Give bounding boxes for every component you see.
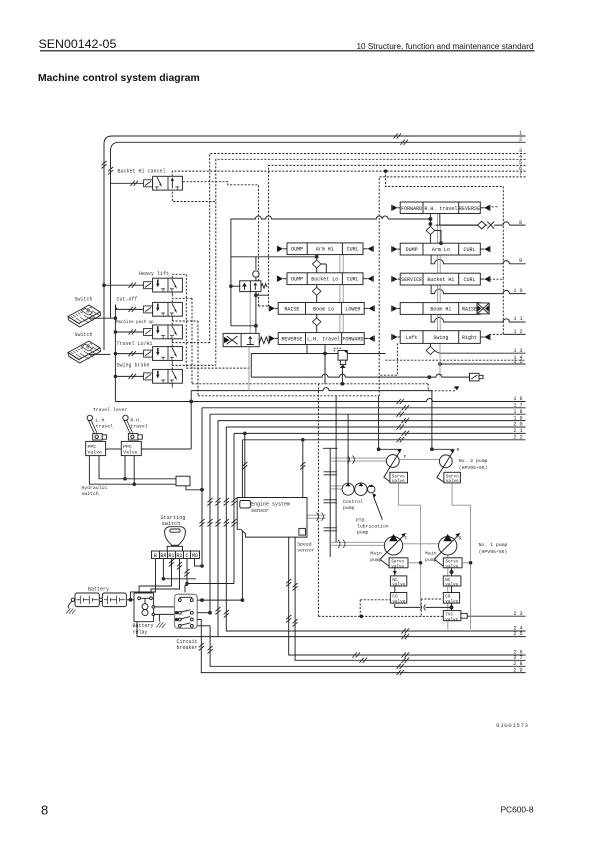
svg-text:1 2: 1 2 xyxy=(513,329,522,335)
svg-text:4: 4 xyxy=(519,154,522,160)
svg-text:SEN00142-05: SEN00142-05 xyxy=(39,37,117,51)
svg-text:2 9: 2 9 xyxy=(513,667,522,673)
svg-text:1 5: 1 5 xyxy=(513,359,522,365)
svg-text:valve: valve xyxy=(446,479,459,484)
svg-text:Arm Lo: Arm Lo xyxy=(432,247,450,253)
svg-text:breaker: breaker xyxy=(177,645,198,651)
svg-text:LOWER: LOWER xyxy=(345,306,360,312)
svg-text:SERVICE: SERVICE xyxy=(401,277,422,283)
svg-text:(HPV95+95): (HPV95+95) xyxy=(459,465,488,471)
svg-text:Battery: Battery xyxy=(88,587,109,593)
svg-text:PC600-8: PC600-8 xyxy=(500,805,533,815)
svg-text:R: R xyxy=(457,447,460,453)
svg-text:Travel lever: Travel lever xyxy=(93,407,128,413)
svg-text:1: 1 xyxy=(519,131,522,137)
svg-text:Speed: Speed xyxy=(297,542,312,548)
svg-text:valve: valve xyxy=(445,599,458,604)
svg-text:Machine push up: Machine push up xyxy=(116,320,154,325)
svg-text:valve: valve xyxy=(445,583,458,588)
svg-text:valve: valve xyxy=(391,565,404,570)
svg-text:7: 7 xyxy=(519,172,522,178)
svg-text:PTO: PTO xyxy=(356,517,365,523)
svg-text:relay: relay xyxy=(133,629,148,635)
svg-text:BR: BR xyxy=(160,553,166,559)
svg-text:Right: Right xyxy=(462,335,477,341)
svg-text:CURL: CURL xyxy=(463,277,475,283)
svg-text:Valve: Valve xyxy=(88,450,103,456)
svg-text:sensor: sensor xyxy=(297,549,314,554)
svg-text:R2: R2 xyxy=(176,553,182,559)
svg-text:Battery: Battery xyxy=(133,623,154,629)
svg-text:9JG01573: 9JG01573 xyxy=(496,722,529,729)
svg-text:Left: Left xyxy=(406,335,418,341)
svg-text:9: 9 xyxy=(519,258,522,264)
svg-text:1 7: 1 7 xyxy=(513,403,522,409)
svg-text:switch: switch xyxy=(81,491,98,497)
svg-text:F: F xyxy=(404,454,407,460)
svg-text:travel: travel xyxy=(130,423,147,429)
svg-text:1 1: 1 1 xyxy=(513,316,522,322)
svg-text:switch: switch xyxy=(162,521,181,527)
svg-text:8: 8 xyxy=(41,803,48,818)
svg-text:Main: Main xyxy=(425,551,437,557)
svg-text:Travel Lo/Hi: Travel Lo/Hi xyxy=(117,341,153,347)
svg-text:1 3: 1 3 xyxy=(513,348,522,354)
svg-text:Heavy lift: Heavy lift xyxy=(139,271,169,277)
svg-text:1 6: 1 6 xyxy=(513,396,522,402)
svg-text:Switch: Switch xyxy=(75,332,93,338)
svg-text:FORWARD: FORWARD xyxy=(342,336,363,342)
svg-text:FORWARD: FORWARD xyxy=(401,206,422,212)
svg-text:PPC: PPC xyxy=(88,444,97,450)
svg-text:CURL: CURL xyxy=(347,277,359,283)
svg-text:L.H.: L.H. xyxy=(96,417,108,423)
svg-text:MO: MO xyxy=(192,553,198,559)
svg-text:pump: pump xyxy=(425,558,437,563)
svg-text:DUMP: DUMP xyxy=(291,277,303,283)
svg-text:2 3: 2 3 xyxy=(513,611,522,617)
svg-text:Bucket Lo: Bucket Lo xyxy=(311,277,338,283)
svg-text:No. 2 pump: No. 2 pump xyxy=(459,458,488,464)
svg-text:Bucket Hi cancel: Bucket Hi cancel xyxy=(118,169,166,175)
svg-text:2 0: 2 0 xyxy=(513,422,522,428)
svg-text:CURL: CURL xyxy=(347,247,359,253)
svg-text:B: B xyxy=(154,553,157,559)
svg-text:REVERSE: REVERSE xyxy=(459,206,480,212)
svg-text:RAISE: RAISE xyxy=(284,306,299,312)
svg-text:pump: pump xyxy=(357,531,369,536)
svg-text:CURL: CURL xyxy=(463,247,475,253)
svg-text:R.H.: R.H. xyxy=(130,417,142,423)
svg-text:REVERSE: REVERSE xyxy=(281,336,302,342)
svg-text:Hydraulic: Hydraulic xyxy=(81,485,107,491)
svg-text:2 2: 2 2 xyxy=(513,435,522,441)
svg-text:Boom Hi: Boom Hi xyxy=(430,306,451,312)
svg-text:Arm Hi: Arm Hi xyxy=(316,247,334,253)
svg-text:valve: valve xyxy=(392,583,405,588)
svg-text:Swing: Swing xyxy=(433,335,448,341)
svg-text:RAISE: RAISE xyxy=(462,306,477,312)
svg-text:Bucket Hi: Bucket Hi xyxy=(427,277,454,283)
svg-text:1 8: 1 8 xyxy=(513,409,522,415)
svg-text:L.H. travel: L.H. travel xyxy=(307,336,340,342)
svg-text:F: F xyxy=(405,536,408,542)
svg-text:8: 8 xyxy=(519,220,522,226)
svg-text:Engine system: Engine system xyxy=(251,502,290,508)
svg-text:DUMP: DUMP xyxy=(406,247,418,253)
svg-text:valve: valve xyxy=(392,599,405,604)
svg-text:Control: Control xyxy=(343,499,363,505)
svg-text:1 9: 1 9 xyxy=(513,415,522,421)
svg-text:Boom Lo: Boom Lo xyxy=(313,306,334,312)
svg-text:DUMP: DUMP xyxy=(291,247,303,253)
svg-text:Machine control system diagram: Machine control system diagram xyxy=(38,73,200,84)
svg-text:sensor: sensor xyxy=(251,508,269,514)
svg-text:travel: travel xyxy=(96,423,113,429)
svg-text:lubrication: lubrication xyxy=(357,524,389,530)
svg-text:Cut-off: Cut-off xyxy=(117,297,138,303)
svg-text:(HPV95+95): (HPV95+95) xyxy=(479,549,508,555)
svg-text:10 Structure, function and mai: 10 Structure, function and maintenance s… xyxy=(356,42,534,51)
svg-text:Main: Main xyxy=(370,551,382,557)
svg-text:Swing brake: Swing brake xyxy=(117,362,150,368)
svg-text:Valve: Valve xyxy=(123,450,138,456)
svg-text:valve: valve xyxy=(445,565,458,570)
svg-text:2 1: 2 1 xyxy=(513,428,522,434)
svg-text:pump: pump xyxy=(343,506,355,511)
svg-text:2: 2 xyxy=(519,137,522,143)
svg-text:Circuit: Circuit xyxy=(177,639,198,645)
svg-text:valve: valve xyxy=(392,479,405,484)
svg-text:2 5: 2 5 xyxy=(513,631,522,637)
svg-text:2 8: 2 8 xyxy=(513,661,522,667)
svg-text:1 0: 1 0 xyxy=(513,288,522,294)
svg-text:R: R xyxy=(459,536,462,542)
svg-text:C: C xyxy=(185,553,188,559)
svg-text:R.H. travel: R.H. travel xyxy=(424,206,457,212)
svg-text:PPC: PPC xyxy=(123,444,132,450)
svg-text:R1: R1 xyxy=(168,553,174,559)
svg-text:pump: pump xyxy=(370,558,382,563)
svg-text:No. 1 pump: No. 1 pump xyxy=(479,542,508,548)
svg-text:Switch: Switch xyxy=(75,297,93,303)
svg-text:valve: valve xyxy=(445,617,458,622)
